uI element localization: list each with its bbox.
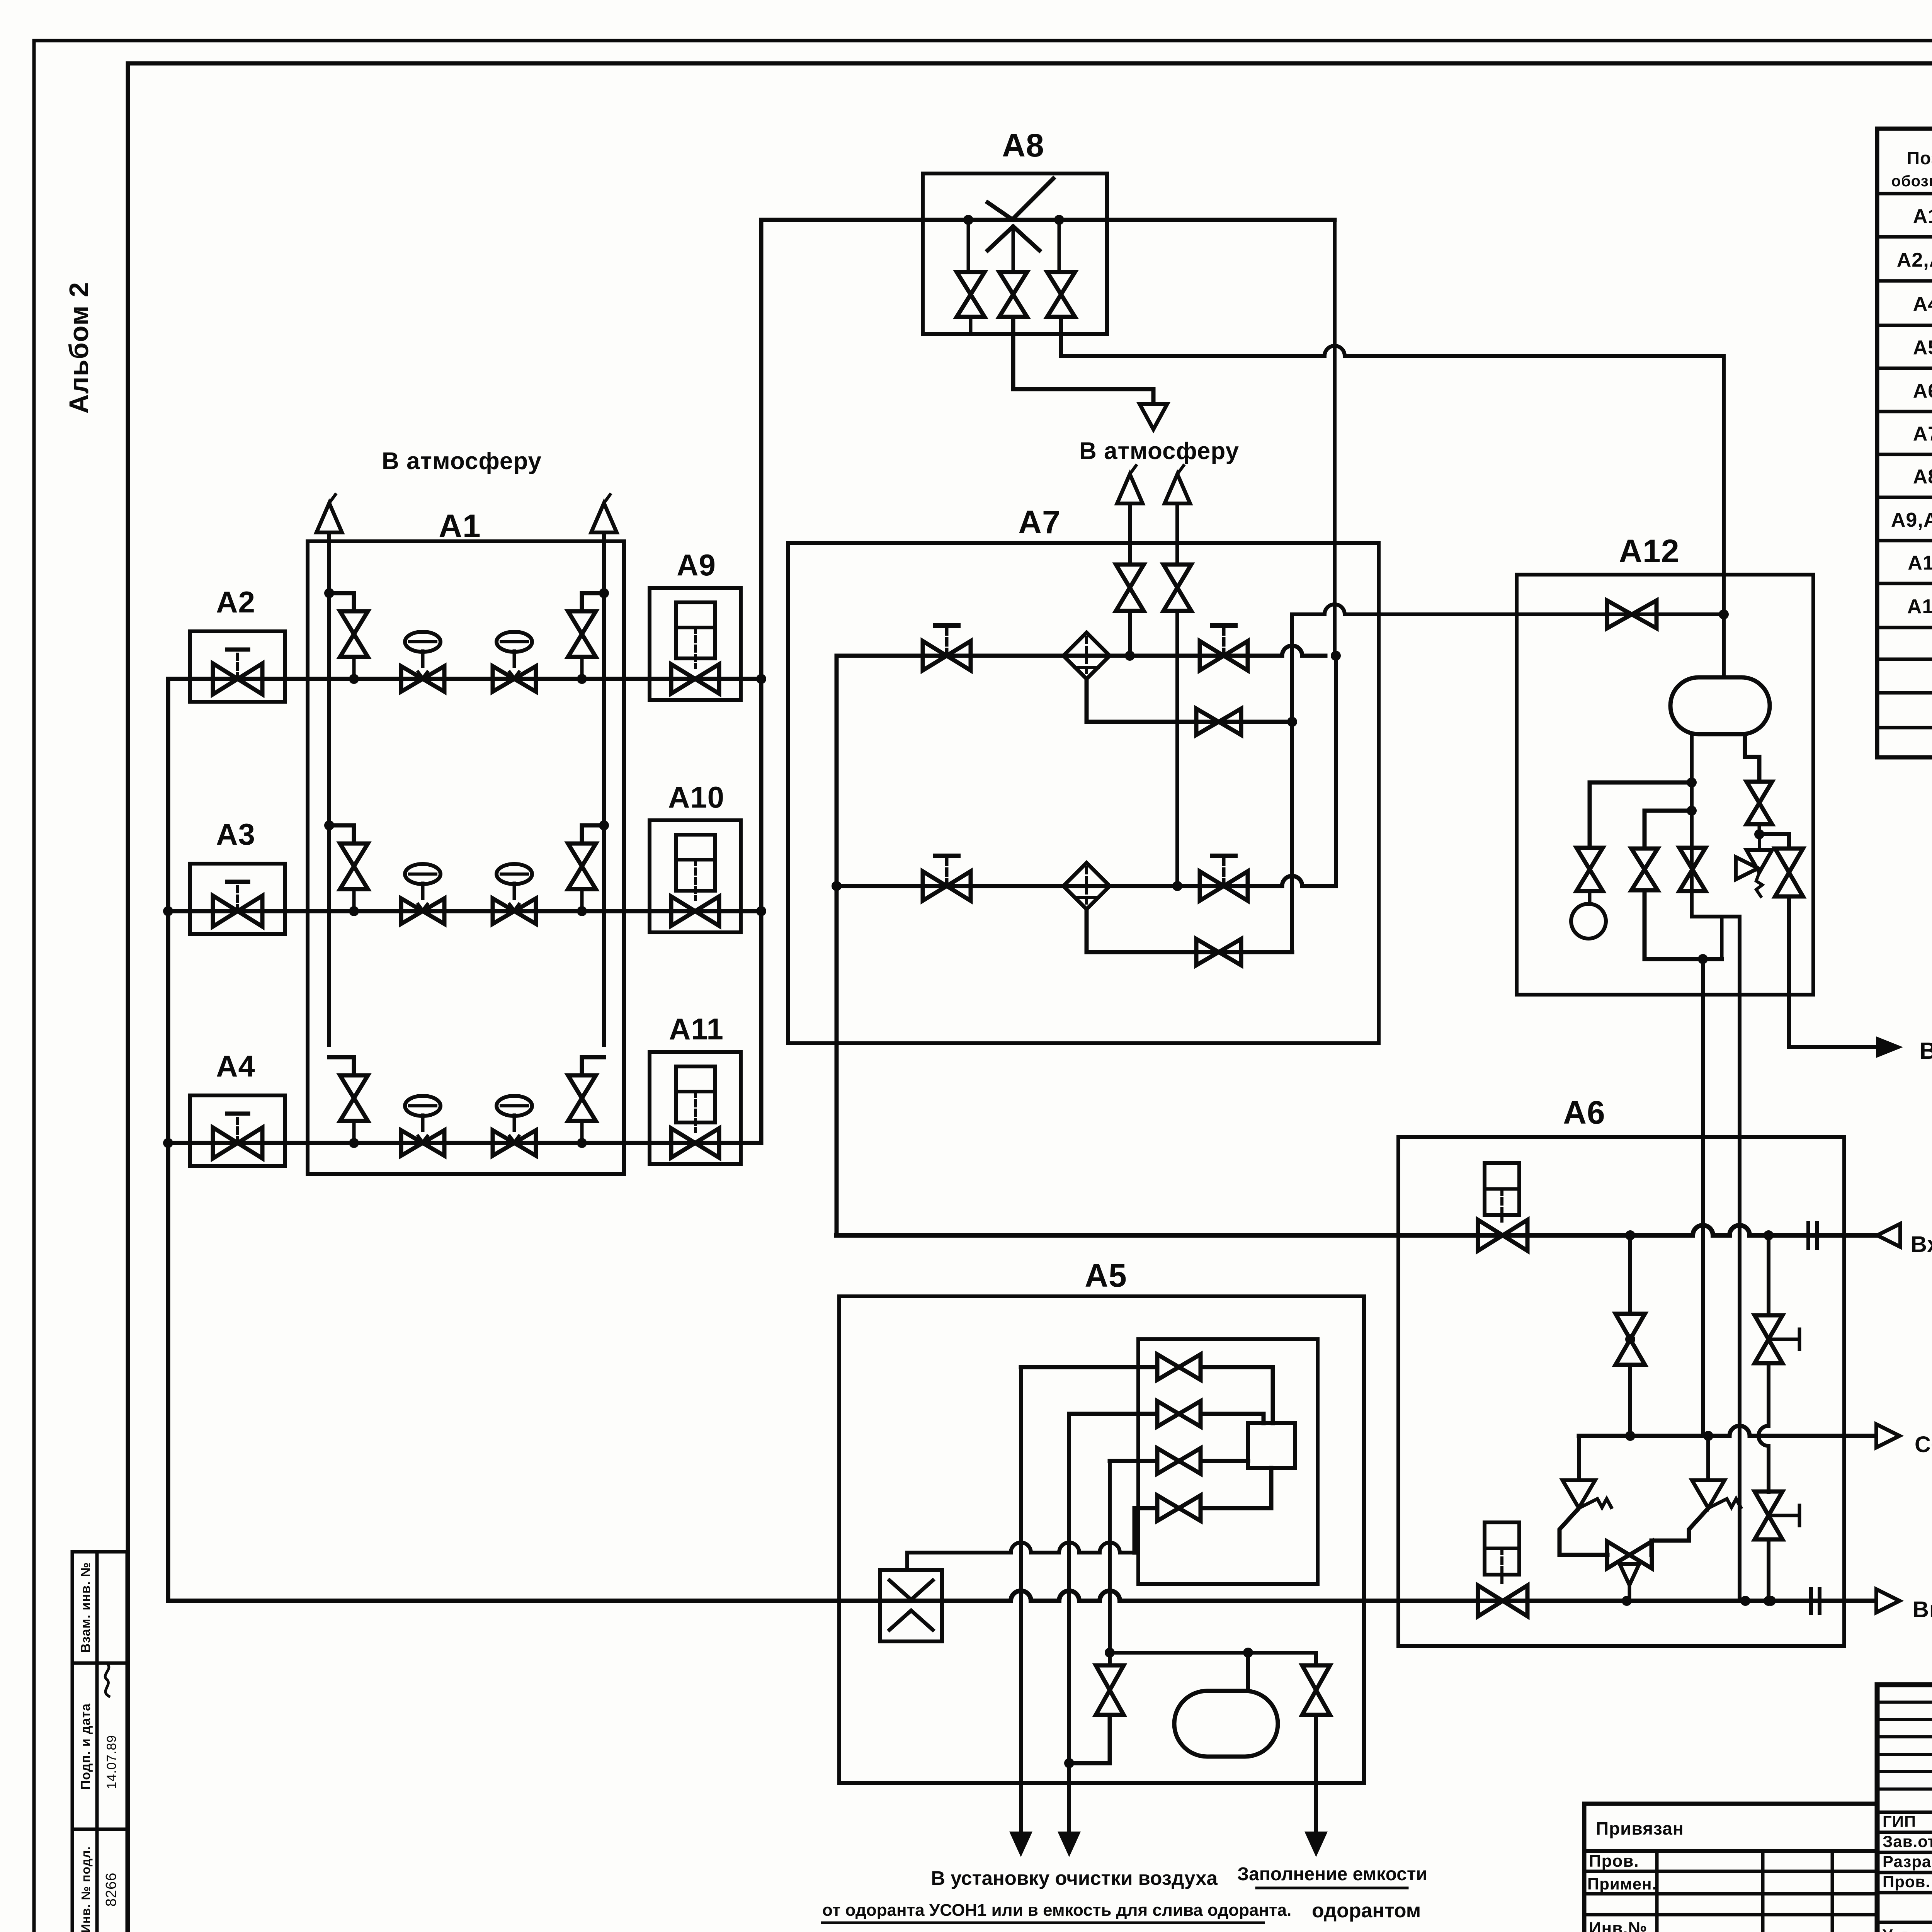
valve unit A10 xyxy=(650,780,741,932)
svg-text:14.07.89: 14.07.89 xyxy=(104,1735,119,1789)
control valve row2 a xyxy=(401,864,444,924)
control valve row3 a xyxy=(401,1096,444,1156)
parts row А5 xyxy=(1913,337,1932,359)
insulation joint outlet xyxy=(1811,1589,1820,1613)
control valve row1 b xyxy=(493,632,536,692)
wire A12 relief junction xyxy=(1754,824,1789,849)
vent triangle A1 right xyxy=(591,495,617,532)
arrow air purge 2 xyxy=(1058,1832,1081,1857)
parts row А8 xyxy=(1913,466,1932,488)
left stamp cells xyxy=(72,1552,127,1932)
vent triangle A7 right xyxy=(1165,466,1190,503)
svg-text:А4: А4 xyxy=(1913,293,1932,315)
svg-text:В установку очистки воздуха: В установку очистки воздуха xyxy=(931,1867,1218,1889)
arrow air purge 1 xyxy=(1009,1832,1032,1857)
svg-text:Подп. и дата: Подп. и дата xyxy=(78,1703,93,1790)
wire A7 lower branch xyxy=(832,876,1336,891)
parts row А1 xyxy=(1913,205,1932,228)
wire A5 odorant feed xyxy=(907,1508,1134,1570)
label tank fill xyxy=(1237,1864,1427,1888)
gauge tap A12 xyxy=(1590,782,1692,848)
valve unit A11 xyxy=(650,1012,741,1164)
svg-text:Сброс на свечу: Сброс на свечу xyxy=(1915,1432,1932,1457)
gauge A12 xyxy=(1571,891,1606,939)
wire A8 output to A12 xyxy=(1061,317,1724,614)
pilot regulator A6 left xyxy=(1560,1436,1611,1555)
svg-text:А9: А9 xyxy=(677,548,716,582)
label gas outlet xyxy=(1913,1597,1932,1622)
arrow flare xyxy=(1876,1424,1900,1447)
insulation joint inlet xyxy=(1808,1223,1817,1248)
valve A12 drum stem xyxy=(1679,848,1706,891)
album note xyxy=(64,282,94,413)
label flare xyxy=(1915,1432,1932,1457)
svg-text:А6: А6 xyxy=(1913,380,1932,402)
valve A12 gauge xyxy=(1577,848,1603,891)
svg-text:А2: А2 xyxy=(216,585,255,619)
svg-text:А3: А3 xyxy=(216,817,255,851)
odorant injector A5 xyxy=(880,1570,942,1641)
wire A1 left vent bus xyxy=(327,532,331,1045)
block A7 box xyxy=(788,543,1379,1043)
valve A6 middle vent xyxy=(1616,1235,1645,1436)
wire right collector bus xyxy=(756,220,766,1143)
wire A5 drain mid xyxy=(1064,1414,1074,1832)
wire A12 to gas outlet line xyxy=(1738,917,1742,1601)
wire A7 upper branch xyxy=(837,646,1341,661)
valve A5 manifold 3 xyxy=(1157,1448,1201,1474)
relief valve left row2 xyxy=(324,820,368,916)
wire A8 middle drain to vent xyxy=(1013,317,1153,404)
svg-text:А5: А5 xyxy=(1913,337,1932,359)
vent label atmosphere left xyxy=(382,448,542,474)
wire A12 left stem xyxy=(1687,734,1740,917)
wire to A12 inlet xyxy=(1292,604,1729,619)
wire A7 lower bypass xyxy=(1087,909,1292,952)
svg-text:А8: А8 xyxy=(1002,127,1044,163)
svg-text:одорантом: одорантом xyxy=(1312,1900,1421,1922)
wire gas outlet line xyxy=(168,1591,1875,1606)
valve A7 lower inlet xyxy=(923,856,971,901)
parts row А6 xyxy=(1913,380,1932,402)
svg-text:А1: А1 xyxy=(439,508,481,544)
wire flare line xyxy=(1579,1426,1876,1441)
valve A4 unit xyxy=(190,1049,285,1166)
wire A12 condensate out xyxy=(1789,896,1876,1047)
three-way valve A6 xyxy=(1607,1541,1652,1601)
block A12 box xyxy=(1517,575,1813,995)
control valve row1 a xyxy=(401,632,444,692)
block A8 label xyxy=(1002,127,1044,163)
vent triangle A8 down xyxy=(1139,404,1167,429)
relief valve left row1 xyxy=(324,588,368,684)
svg-text:А7: А7 xyxy=(1913,423,1932,445)
orifice meter A8 xyxy=(988,179,1053,250)
valve A8 left xyxy=(957,220,985,334)
valve A6 right upper chain xyxy=(1755,1235,1799,1492)
wire A7 upper bypass xyxy=(1087,679,1297,727)
svg-text:А11: А11 xyxy=(1908,552,1932,574)
valve A8 right xyxy=(1047,220,1075,317)
svg-text:Поз.: Поз. xyxy=(1907,148,1932,168)
block A1 box xyxy=(308,541,624,1174)
block A6 label xyxy=(1563,1094,1605,1131)
valve unit A9 xyxy=(650,548,741,700)
relief valve right row3 xyxy=(568,1057,604,1148)
svg-text:В атмосферу: В атмосферу xyxy=(382,448,542,474)
valve A7 upper outlet xyxy=(1200,626,1248,670)
svg-text:В атмосферу: В атмосферу xyxy=(1079,438,1239,464)
filter A7 upper xyxy=(1063,633,1110,679)
valve A6 outlet with actuator xyxy=(1478,1522,1527,1616)
valve A3 unit xyxy=(190,817,285,934)
svg-text:Вход газа Ду 200мм; Ру 1,2...5: Вход газа Ду 200мм; Ру 1,2...5,5 МПа xyxy=(1911,1232,1932,1257)
wire A7 inlet riser xyxy=(835,656,839,1235)
svg-text:Взам. инв. №: Взам. инв. № xyxy=(78,1562,93,1653)
relief valve right row2 xyxy=(568,820,609,916)
svg-text:А4: А4 xyxy=(216,1049,255,1083)
arrow gas inlet xyxy=(1877,1224,1900,1247)
wire A12 drain bottom xyxy=(1645,890,1722,964)
svg-text:А6: А6 xyxy=(1563,1094,1605,1131)
wire row A2 line xyxy=(168,677,761,681)
filter A7 lower xyxy=(1063,863,1110,909)
odorizer device A5 xyxy=(1248,1423,1295,1468)
relief valve A12 xyxy=(1736,834,1772,896)
vent valve A7 right xyxy=(1163,503,1191,891)
svg-text:Заполнение емкости: Заполнение емкости xyxy=(1237,1864,1427,1884)
drain tap A12 xyxy=(1645,811,1692,849)
svg-text:А12: А12 xyxy=(1907,595,1932,618)
block A8 box xyxy=(923,173,1107,334)
svg-text:обознач.: обознач. xyxy=(1891,173,1932,190)
pilot regulator A6 right xyxy=(1651,1436,1741,1555)
svg-text:Инв.№: Инв.№ xyxy=(1589,1919,1648,1932)
valve A12 right lower xyxy=(1775,849,1803,896)
A5 inner manifold box xyxy=(1138,1339,1318,1584)
svg-text:А9,А10: А9,А10 xyxy=(1891,509,1932,531)
svg-text:Инв. № подл.: Инв. № подл. xyxy=(79,1846,93,1932)
valve A6 right lower chain xyxy=(1755,1492,1799,1606)
svg-text:А1: А1 xyxy=(1913,205,1932,228)
wire A5 manifold lines xyxy=(1021,1367,1273,1508)
parts row А9,А10 xyxy=(1891,509,1932,531)
wire row A4 line xyxy=(168,1141,759,1145)
svg-text:Альбом 2: Альбом 2 xyxy=(64,282,94,413)
relief valve left row3 xyxy=(329,1057,368,1148)
svg-text:Пров.: Пров. xyxy=(1589,1852,1639,1871)
svg-text:А11: А11 xyxy=(669,1012,724,1046)
odorant tank A5 xyxy=(1174,1691,1278,1757)
wire A12 to gas inlet line xyxy=(1701,959,1705,1436)
svg-text:А7: А7 xyxy=(1018,504,1060,540)
svg-text:Примен.: Примен. xyxy=(1587,1875,1657,1893)
title block attachment table xyxy=(1584,1804,1877,1932)
parts row А7 xyxy=(1913,423,1932,445)
svg-text:А2,А3: А2,А3 xyxy=(1897,249,1932,271)
valve A7 upper bypass xyxy=(1196,709,1241,735)
block A7 label xyxy=(1018,504,1060,540)
svg-text:А10: А10 xyxy=(668,780,724,814)
parts row А4 xyxy=(1913,293,1932,315)
valve A12 right upper xyxy=(1747,782,1772,824)
valve A2 unit xyxy=(190,585,285,702)
arrow condensate out xyxy=(1876,1036,1903,1058)
label air purge xyxy=(931,1867,1218,1889)
svg-text:Разраб.: Разраб. xyxy=(1883,1852,1932,1871)
wire row A3 line xyxy=(168,909,759,913)
wire A12 drum feed xyxy=(1722,614,1726,677)
wire A12 right stem xyxy=(1745,734,1759,782)
block A6 box xyxy=(1398,1137,1844,1646)
parts row А11 xyxy=(1908,552,1932,574)
control valve row3 b xyxy=(493,1096,536,1156)
vent valve A7 left xyxy=(1116,503,1144,661)
svg-text:Выход газа Ду 400; Ру 0,3; 0,6: Выход газа Ду 400; Ру 0,3; 0,6; 1,2 МПа xyxy=(1913,1597,1932,1622)
vent triangle A7 left xyxy=(1117,466,1143,503)
arrow gas outlet xyxy=(1876,1589,1900,1612)
arrow tank fill xyxy=(1304,1832,1328,1857)
wire A8 main line xyxy=(761,215,1335,225)
parts row А2,А3 xyxy=(1897,249,1932,271)
valve A5 tank right xyxy=(1302,1665,1330,1832)
valve A5 manifold 1 xyxy=(1157,1354,1201,1380)
valve A5 manifold 4 xyxy=(1157,1495,1201,1521)
block A5 label xyxy=(1085,1257,1127,1294)
label condensate out xyxy=(1920,1038,1932,1064)
valve A6 inlet with actuator xyxy=(1478,1163,1527,1251)
wire A7 bypass riser xyxy=(1290,614,1294,952)
label gas inlet xyxy=(1911,1232,1932,1257)
svg-text:Пров.: Пров. xyxy=(1883,1872,1930,1891)
vent label atmosphere middle xyxy=(1079,438,1239,464)
svg-text:А5: А5 xyxy=(1085,1257,1127,1294)
wire A7 outlet riser xyxy=(1335,220,1336,886)
vent triangle A1 left xyxy=(316,495,342,532)
svg-text:А12: А12 xyxy=(1619,533,1679,569)
block A5 box xyxy=(839,1296,1364,1783)
block A1 label xyxy=(439,508,481,544)
svg-text:ГИП: ГИП xyxy=(1883,1812,1916,1830)
valve A12 drain xyxy=(1631,849,1658,890)
control valve row2 b xyxy=(493,864,536,924)
condensate drum A12 xyxy=(1670,677,1770,734)
valve A5 manifold 2 xyxy=(1157,1401,1201,1427)
valve A8 middle xyxy=(999,226,1027,317)
valve A5 tank left xyxy=(1069,1665,1124,1763)
svg-text:от одоранта УСОН1 или в емкост: от одоранта УСОН1 или в емкость для слив… xyxy=(822,1901,1291,1920)
valve A7 upper inlet xyxy=(923,626,971,670)
title block main frame xyxy=(1877,1685,1932,1932)
parts table frame xyxy=(1877,129,1932,757)
parts table header xyxy=(1891,148,1932,190)
valve A7 lower bypass xyxy=(1196,939,1241,965)
title block roles xyxy=(1883,1807,1932,1932)
svg-text:Утв.: Утв. xyxy=(1883,1926,1917,1932)
svg-text:8266: 8266 xyxy=(103,1872,119,1907)
valve A7 lower outlet xyxy=(1200,856,1248,901)
relief valve right row1 xyxy=(568,588,609,684)
wire A5 tank top line xyxy=(1105,1461,1316,1691)
label odorant note xyxy=(822,1900,1421,1923)
wire A1 right vent bus xyxy=(602,532,606,1045)
wire left bus xyxy=(163,679,173,1601)
svg-text:Зав.отд: Зав.отд xyxy=(1883,1832,1932,1850)
svg-text:Выдача конденсата: Выдача конденсата xyxy=(1920,1038,1932,1064)
block A12 label xyxy=(1619,533,1679,569)
wire A5 drain left xyxy=(1019,1367,1023,1832)
valve A12 inlet xyxy=(1607,600,1656,628)
parts row А12 xyxy=(1907,595,1932,618)
svg-text:А8: А8 xyxy=(1913,466,1932,488)
wire gas inlet line xyxy=(837,1225,1876,1240)
svg-text:Привязан: Привязан xyxy=(1596,1818,1684,1838)
